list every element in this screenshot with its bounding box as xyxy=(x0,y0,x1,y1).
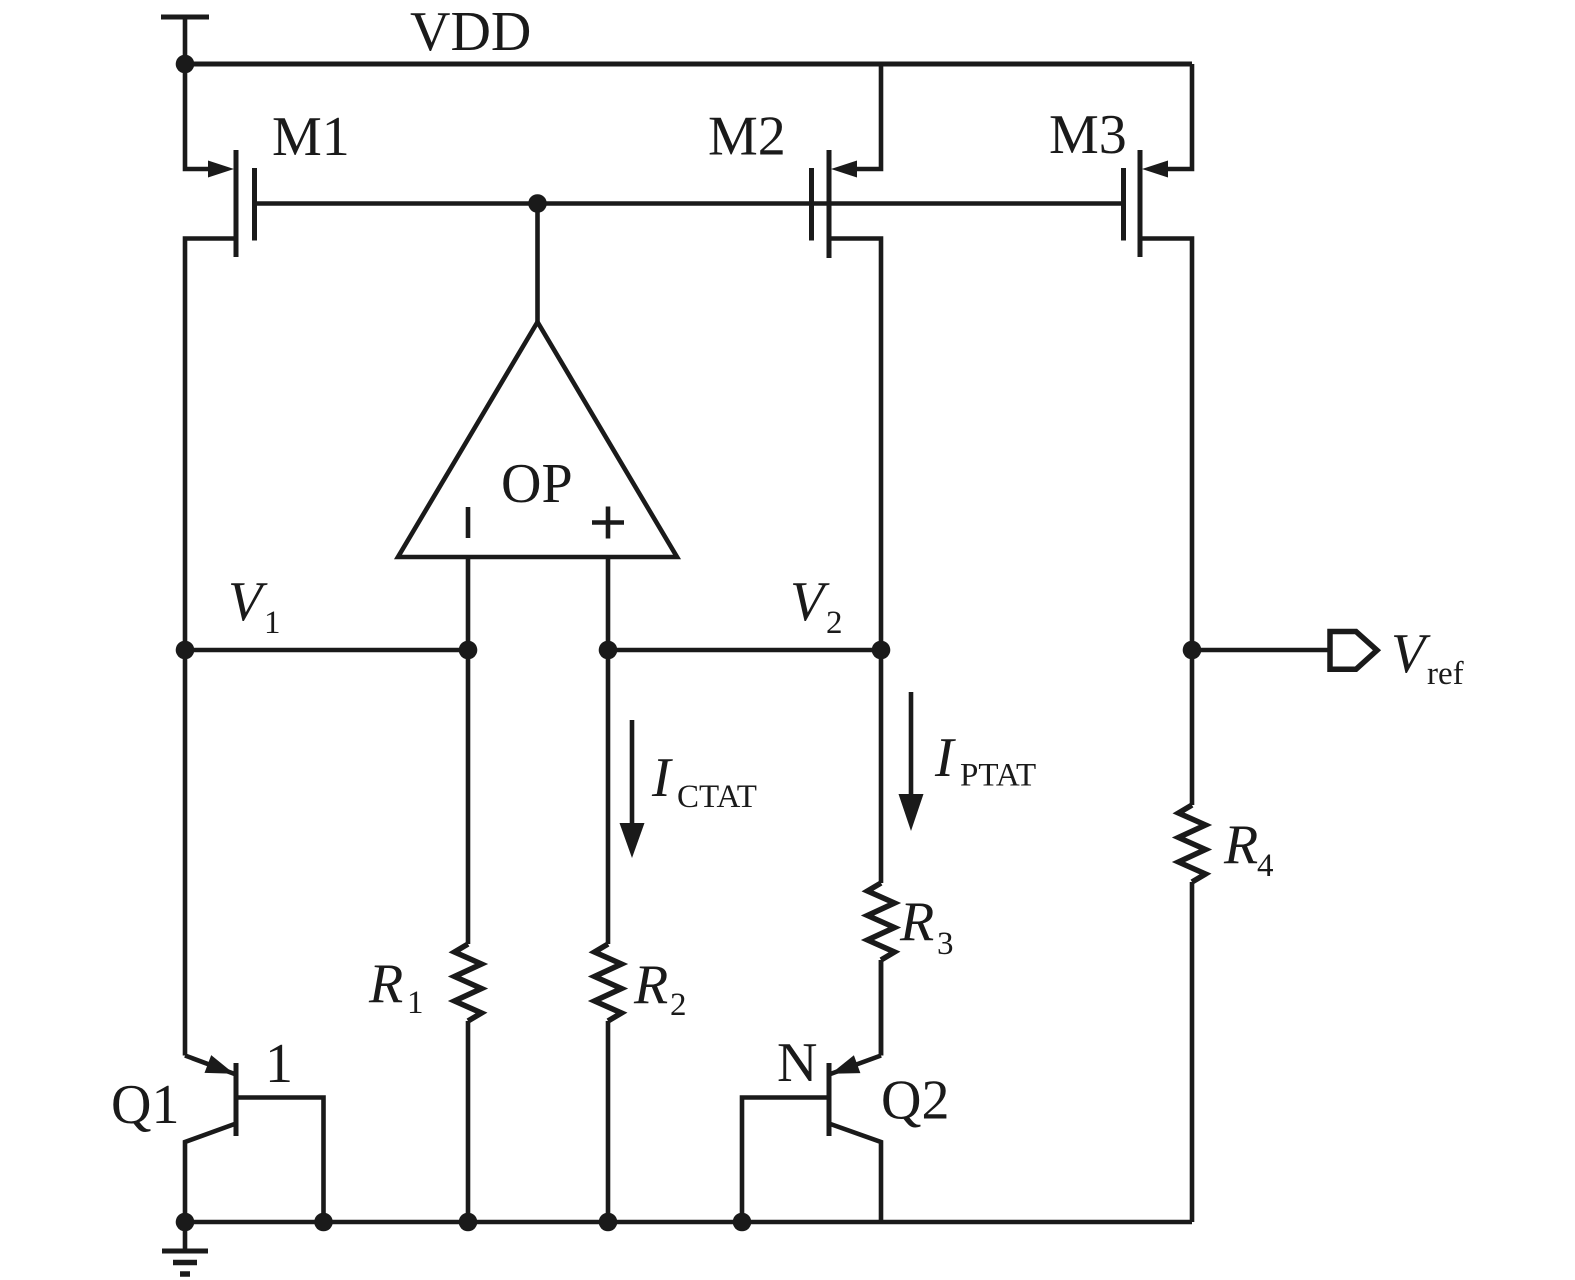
svg-text:2: 2 xyxy=(670,987,687,1023)
wire op-amp output xyxy=(535,204,540,323)
wire VDD rail xyxy=(185,62,1192,67)
svg-text:4: 4 xyxy=(1257,848,1274,884)
node dot plus input xyxy=(599,641,618,660)
label V1 xyxy=(228,571,281,641)
label V2 xyxy=(790,571,843,641)
svg-text:M2: M2 xyxy=(708,106,786,168)
svg-text:R: R xyxy=(899,891,934,953)
label I_PTAT xyxy=(934,727,1036,794)
node dot VDD/M1 source junction xyxy=(176,55,195,74)
power symbol VDD top-left T xyxy=(161,17,209,64)
label R1 xyxy=(368,953,424,1021)
resistor R1 xyxy=(455,650,482,1222)
svg-text:3: 3 xyxy=(937,926,954,962)
op-amp plus sign xyxy=(592,507,624,539)
svg-text:1: 1 xyxy=(407,985,424,1021)
svg-text:CTAT: CTAT xyxy=(677,779,757,815)
current arrow I_PTAT xyxy=(899,692,924,831)
label Vref xyxy=(1391,623,1464,692)
wire op-amp inverting input xyxy=(466,557,471,650)
label R2 xyxy=(633,954,687,1023)
svg-text:I: I xyxy=(651,747,673,809)
wire Vref output xyxy=(1192,648,1330,653)
wire gate bus xyxy=(255,201,1124,206)
svg-text:R: R xyxy=(633,954,668,1016)
svg-text:V: V xyxy=(1391,623,1431,685)
op-amp minus sign xyxy=(466,507,471,538)
svg-text:ref: ref xyxy=(1427,656,1464,692)
svg-text:VDD: VDD xyxy=(410,1,531,63)
resistor R4 xyxy=(1179,650,1206,1222)
svg-text:PTAT: PTAT xyxy=(960,758,1036,794)
resistor R2 xyxy=(595,650,622,1222)
resistor R3 xyxy=(868,650,895,1056)
transistor M1 (PMOS) xyxy=(185,64,255,650)
svg-text:Q2: Q2 xyxy=(881,1070,949,1132)
wire op-amp non-inverting input xyxy=(606,557,611,650)
svg-text:OP: OP xyxy=(501,453,573,515)
transistor Q1 (PNP BJT) xyxy=(185,650,324,1222)
label I_CTAT xyxy=(651,747,757,815)
svg-text:Q1: Q1 xyxy=(111,1074,179,1136)
node dot Vref xyxy=(1183,641,1202,660)
svg-text:M3: M3 xyxy=(1049,104,1127,166)
node dot V1 left xyxy=(176,641,195,660)
label R3 xyxy=(899,891,954,962)
op-amp U1 triangle xyxy=(398,322,677,557)
node dot V2 right xyxy=(872,641,891,660)
node dot rail Q1 base xyxy=(314,1213,333,1232)
svg-text:R: R xyxy=(1223,814,1258,876)
transistor M2 (PMOS) xyxy=(812,64,882,650)
svg-text:M1: M1 xyxy=(272,106,350,168)
label R4 xyxy=(1223,814,1274,884)
ground symbol xyxy=(162,1222,208,1274)
transistor Q2 (PNP BJT) xyxy=(742,960,881,1222)
current arrow I_CTAT xyxy=(620,720,645,858)
svg-text:I: I xyxy=(934,727,956,789)
node dot rail R2 xyxy=(599,1213,618,1232)
svg-text:R: R xyxy=(368,953,403,1015)
Vref output pointer xyxy=(1330,632,1377,670)
wire ground rail xyxy=(185,1220,1192,1225)
node V2 wire xyxy=(608,648,881,653)
svg-text:N: N xyxy=(777,1032,817,1094)
svg-text:V: V xyxy=(228,571,268,633)
node dot rail R1 xyxy=(459,1213,478,1232)
svg-text:2: 2 xyxy=(826,605,843,641)
svg-text:1: 1 xyxy=(265,1033,293,1095)
node V1 wire xyxy=(185,648,468,653)
node dot minus input xyxy=(459,641,478,660)
node dot rail Q2 base xyxy=(733,1213,752,1232)
svg-text:V: V xyxy=(790,571,830,633)
node dot gate/op-amp output junction xyxy=(528,194,547,213)
svg-text:1: 1 xyxy=(264,605,281,641)
node dot rail Q1 collector/ground xyxy=(176,1213,195,1232)
transistor M3 (PMOS) xyxy=(1124,64,1193,650)
